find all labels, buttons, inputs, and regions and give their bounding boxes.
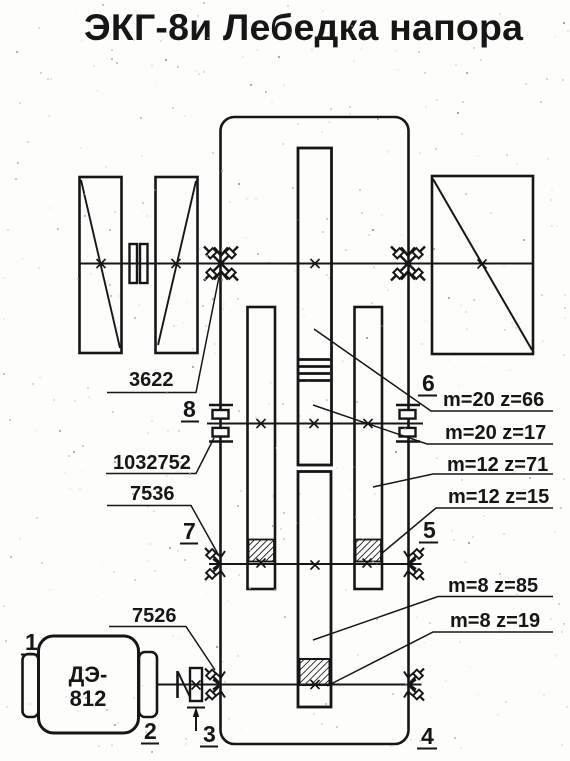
svg-text:m=12 z=15: m=12 z=15 [448, 486, 549, 508]
svg-text:1032752: 1032752 [113, 452, 191, 474]
svg-text:m=8 z=19: m=8 z=19 [450, 610, 540, 632]
svg-text:7: 7 [183, 518, 196, 544]
svg-text:3: 3 [203, 721, 216, 747]
svg-text:1: 1 [25, 629, 38, 655]
svg-text:7536: 7536 [130, 483, 175, 505]
svg-text:4: 4 [421, 723, 434, 749]
svg-text:7526: 7526 [132, 605, 177, 627]
svg-text:3622: 3622 [129, 369, 174, 391]
svg-text:m=8 z=85: m=8 z=85 [448, 575, 538, 597]
svg-text:5: 5 [423, 517, 436, 543]
svg-text:m=12 z=71: m=12 z=71 [447, 454, 548, 476]
svg-text:8: 8 [183, 396, 196, 422]
svg-text:2: 2 [144, 718, 157, 744]
svg-text:ДЭ-: ДЭ- [69, 662, 108, 687]
svg-text:812: 812 [70, 686, 107, 711]
svg-text:6: 6 [422, 370, 435, 396]
svg-text:m=20 z=66: m=20 z=66 [443, 389, 544, 411]
svg-text:ЭКГ-8и Лебедка напора: ЭКГ-8и Лебедка напора [84, 6, 524, 48]
svg-text:m=20 z=17: m=20 z=17 [445, 422, 546, 444]
